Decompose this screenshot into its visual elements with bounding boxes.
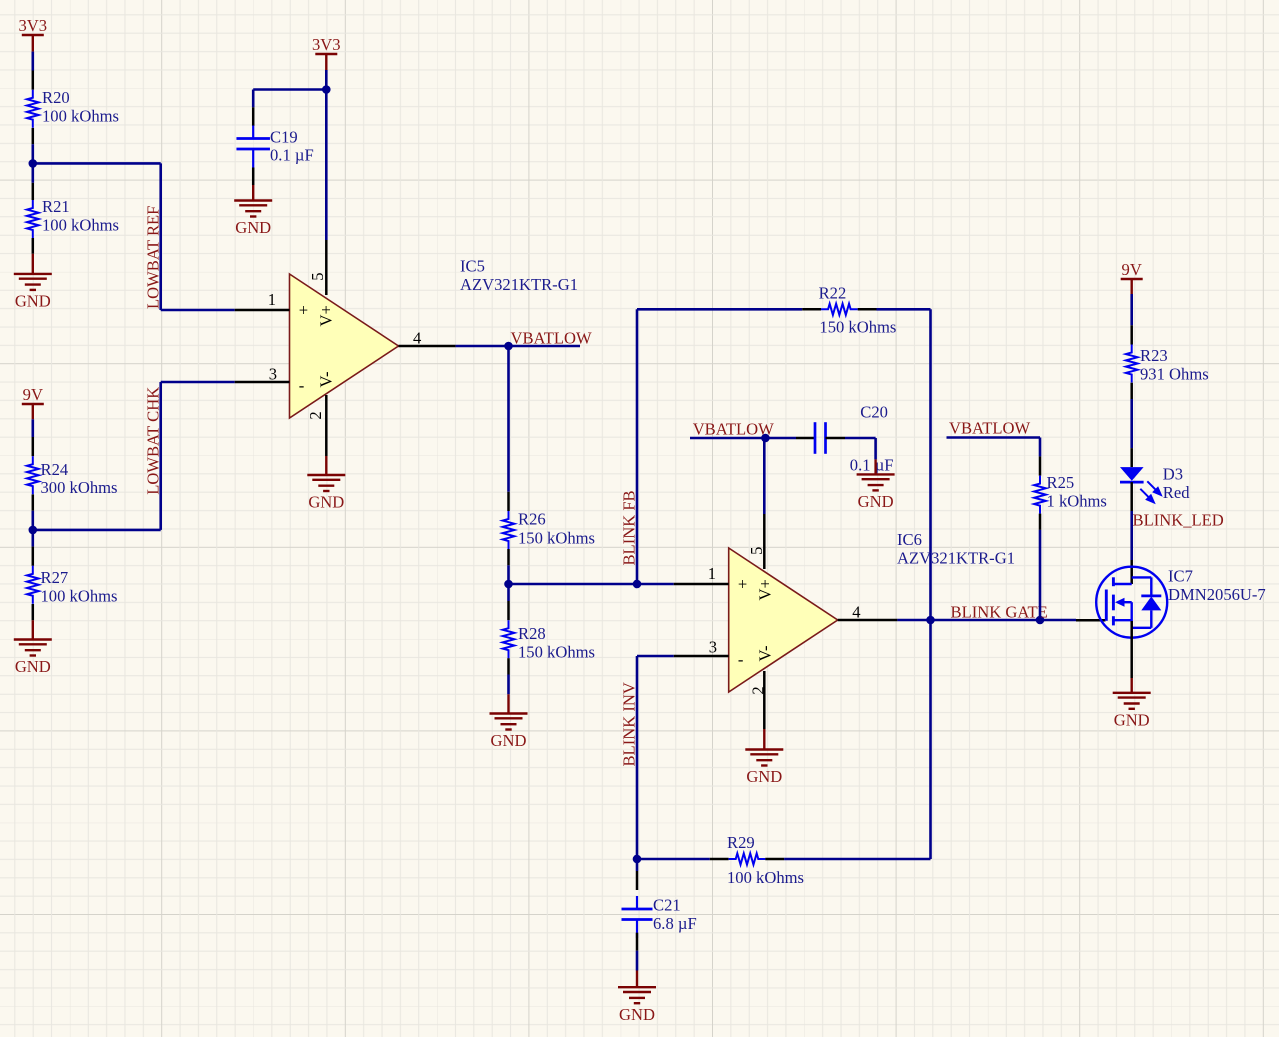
svg-text:AZV321KTR-G1: AZV321KTR-G1	[897, 548, 1015, 567]
ground right of C20	[857, 459, 895, 511]
svg-text:GND: GND	[491, 731, 527, 750]
svg-text:R28: R28	[518, 624, 546, 643]
wire junction to R29	[637, 858, 710, 861]
svg-text:GND: GND	[619, 1005, 655, 1024]
wire R26 to R28	[507, 565, 510, 601]
wire LOWBAT_REF horizontal to IC5 pin 1	[161, 309, 235, 312]
svg-text:0.1 µF: 0.1 µF	[270, 146, 314, 165]
wire IC6 output to MOSFET gate	[897, 619, 1076, 622]
svg-text:C19: C19	[270, 128, 298, 147]
power port 3V3 (above IC5)	[312, 35, 341, 70]
wire VBATLOW to R26	[507, 346, 510, 492]
svg-text:0.1 µF: 0.1 µF	[850, 455, 894, 474]
svg-text:100 kOhms: 100 kOhms	[727, 868, 804, 887]
wire feedback vertical segment	[929, 309, 932, 859]
svg-text:GND: GND	[15, 657, 51, 676]
op-amp IC6 pin 5	[747, 438, 766, 569]
svg-text:LOWBAT REF: LOWBAT REF	[143, 206, 162, 309]
wire 3V3 to R20	[31, 52, 34, 71]
svg-text:VBATLOW: VBATLOW	[693, 420, 774, 439]
svg-text:V+: V+	[756, 579, 775, 600]
svg-text:931 Ohms: 931 Ohms	[1140, 364, 1209, 383]
wire R29 to feedback corner	[784, 858, 930, 861]
op-amp IC5 pin 3	[235, 365, 290, 384]
op-amp IC5 pin 5	[308, 240, 327, 295]
junction R25/BLINK_GATE node	[1036, 616, 1045, 625]
svg-text:BLINK INV: BLINK INV	[620, 682, 639, 766]
svg-text:R27: R27	[41, 568, 69, 587]
svg-text:VBATLOW: VBATLOW	[511, 329, 592, 348]
wire C20 to ground corner	[845, 438, 876, 459]
power port 3V3 (left)	[19, 16, 48, 52]
op-amp IC5 pin 2	[306, 395, 326, 456]
svg-text:GND: GND	[858, 492, 894, 511]
power port 9V (right)	[1121, 260, 1143, 294]
svg-text:D3: D3	[1163, 465, 1183, 484]
wire VBATLOW stub to C20	[690, 437, 796, 440]
resistor R28	[503, 601, 595, 675]
svg-text:100 kOhms: 100 kOhms	[41, 586, 118, 605]
svg-text:9V: 9V	[23, 385, 43, 404]
svg-text:V-: V-	[756, 646, 775, 662]
wire BLINK_INV vertical segment	[636, 656, 639, 859]
resistor R25	[1034, 456, 1107, 530]
ground below IC6 pin 2	[745, 729, 783, 786]
svg-text:IC5: IC5	[460, 257, 485, 276]
ground below R27	[14, 620, 52, 676]
op-amp IC5 pin 4 output	[399, 328, 456, 347]
svg-text:V+: V+	[316, 305, 335, 326]
junction VBATLOW node	[504, 342, 513, 351]
svg-text:3V3: 3V3	[19, 16, 48, 35]
ground below R28	[490, 694, 528, 750]
svg-text:R21: R21	[42, 197, 70, 216]
junction LOWBAT_CHK node	[29, 526, 38, 535]
wire 3V3 to IC5 pin 5	[325, 70, 328, 240]
wire LOWBAT_CHK horizontal to IC5 pin 3	[161, 381, 235, 384]
svg-text:1: 1	[268, 290, 276, 309]
op-amp IC5 body	[290, 257, 579, 419]
svg-text:GND: GND	[746, 767, 782, 786]
wire IC7 source to ground	[1130, 621, 1133, 678]
wire LOWBAT_REF vertical segment	[159, 163, 162, 310]
ground below IC7	[1113, 678, 1151, 729]
svg-text:DMN2056U-7: DMN2056U-7	[1168, 585, 1266, 604]
svg-text:1: 1	[708, 564, 716, 583]
svg-text:300 kOhms: 300 kOhms	[41, 478, 118, 497]
wire R23 to D3	[1130, 399, 1133, 448]
wire R28 to ground	[507, 675, 510, 695]
svg-text:C20: C20	[860, 403, 888, 422]
wire junction to IC6 pin 1	[509, 583, 674, 586]
svg-text:C21: C21	[653, 896, 681, 915]
svg-text:R22: R22	[819, 283, 847, 302]
resistor R27	[27, 547, 117, 621]
svg-text:R26: R26	[518, 510, 546, 529]
svg-text:VBATLOW: VBATLOW	[949, 419, 1030, 438]
svg-text:100 kOhms: 100 kOhms	[42, 215, 119, 234]
svg-text:1 kOhms: 1 kOhms	[1047, 491, 1107, 510]
svg-text:AZV321KTR-G1: AZV321KTR-G1	[460, 275, 578, 294]
svg-text:2: 2	[748, 686, 767, 694]
svg-text:150 kOhms: 150 kOhms	[518, 642, 595, 661]
svg-text:5: 5	[308, 273, 327, 281]
wire R22 to feedback corner	[877, 308, 931, 311]
svg-text:2: 2	[306, 411, 325, 419]
op-amp IC5 pin 1	[235, 290, 290, 310]
svg-text:GND: GND	[235, 218, 271, 237]
svg-text:3: 3	[269, 365, 277, 384]
capacitor C21	[622, 859, 697, 971]
svg-text:BLINK FB: BLINK FB	[620, 490, 639, 565]
wire junction to C19	[253, 88, 326, 91]
wire junction to LOWBAT_REF vertical	[33, 162, 161, 165]
svg-text:Red: Red	[1163, 483, 1190, 502]
svg-text:BLINK GATE: BLINK GATE	[951, 602, 1048, 621]
svg-text:150 kOhms: 150 kOhms	[518, 528, 595, 547]
svg-text:GND: GND	[1114, 710, 1150, 729]
wire R24 to R27	[31, 511, 34, 547]
junction 3V3/C19 node	[322, 85, 331, 94]
svg-text:+: +	[299, 301, 308, 320]
svg-text:6.8 µF: 6.8 µF	[653, 914, 697, 933]
svg-text:-: -	[299, 376, 305, 395]
svg-text:LOWBAT CHK: LOWBAT CHK	[143, 387, 162, 495]
resistor R20	[27, 71, 119, 145]
wire 9V to R23	[1130, 294, 1133, 325]
transistor IC7 (N-MOSFET)	[1076, 560, 1266, 638]
junction VBATLOW/IC6 pin5 node	[761, 434, 770, 443]
junction BLINK_FB node	[633, 580, 642, 589]
svg-text:-: -	[738, 650, 744, 669]
ground below IC5 pin 2	[307, 456, 345, 512]
ground below C19	[234, 185, 272, 237]
op-amp IC6 pin 4 output	[838, 602, 898, 621]
resistor R21	[27, 183, 119, 254]
svg-text:100 kOhms: 100 kOhms	[42, 106, 119, 125]
svg-text:GND: GND	[15, 292, 51, 311]
wire IC6 pin 3 stub	[637, 655, 674, 658]
svg-text:9V: 9V	[1122, 260, 1142, 279]
LED D3	[1120, 448, 1190, 511]
junction feedback/BLINK_GATE node	[926, 616, 935, 625]
resistor R23	[1126, 325, 1209, 399]
power port 9V (left)	[22, 385, 44, 419]
wire IC5 output to VBATLOW	[456, 345, 580, 348]
svg-text:IC7: IC7	[1168, 567, 1193, 586]
wire R25 to BLINK_GATE	[1039, 530, 1042, 620]
wire junction to LOWBAT_CHK vertical	[33, 529, 161, 532]
wire LOWBAT_CHK vertical segment	[159, 382, 162, 530]
svg-text:3V3: 3V3	[312, 35, 341, 54]
junction BLINK_INV/C21 node	[633, 855, 642, 864]
svg-text:R29: R29	[727, 833, 755, 852]
capacitor C19	[236, 90, 313, 186]
wire 9V to R24	[31, 419, 34, 437]
svg-text:+: +	[738, 575, 747, 594]
op-amp IC6 pin 1	[674, 564, 729, 584]
junction R26/R28 node	[504, 580, 513, 589]
wire D3 to IC7 drain	[1130, 511, 1133, 560]
op-amp IC6 pin 2	[748, 671, 767, 729]
svg-text:4: 4	[852, 602, 861, 621]
svg-text:150 kOhms: 150 kOhms	[819, 318, 896, 337]
wire BLINK_FB vertical segment	[636, 309, 639, 584]
svg-text:5: 5	[747, 547, 766, 555]
svg-text:GND: GND	[308, 493, 344, 512]
ground below R21	[14, 254, 52, 311]
svg-text:R24: R24	[41, 460, 69, 479]
ground below C21	[618, 971, 656, 1024]
wire R20 to R21	[31, 144, 34, 183]
resistor R29	[710, 833, 804, 887]
wire VBATLOW stub to R25	[947, 438, 1041, 457]
wire BLINK_FB horizontal to R22	[637, 308, 802, 311]
resistor R24	[27, 437, 117, 511]
svg-text:V-: V-	[316, 372, 335, 388]
svg-text:4: 4	[413, 328, 422, 347]
junction LOWBAT_REF node	[29, 159, 38, 168]
svg-text:IC6: IC6	[897, 530, 922, 549]
svg-text:3: 3	[709, 638, 717, 657]
capacitor C20	[796, 403, 893, 475]
svg-text:BLINK_LED: BLINK_LED	[1133, 511, 1224, 530]
resistor R26	[503, 492, 595, 566]
svg-text:R20: R20	[42, 88, 70, 107]
op-amp IC6 body	[729, 530, 1015, 692]
svg-text:R25: R25	[1047, 473, 1075, 492]
resistor R22	[802, 283, 896, 336]
svg-text:R23: R23	[1140, 346, 1168, 365]
op-amp IC6 pin 3	[674, 638, 729, 657]
